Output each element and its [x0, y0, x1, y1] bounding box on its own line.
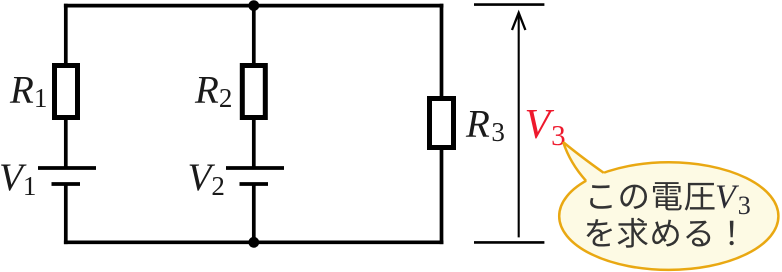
battery V2 short plate: [240, 182, 269, 186]
wire right branch: [440, 4, 444, 244]
svg-text:R2: R2: [194, 69, 232, 114]
svg-text:V3: V3: [525, 102, 566, 152]
wire left branch upper: [64, 4, 68, 168]
wire middle branch lower: [252, 184, 256, 244]
svg-text:R1: R1: [9, 69, 47, 114]
resistor R2: [242, 66, 265, 118]
wire top horizontal: [64, 4, 444, 8]
speech bubble tail left edge: [563, 142, 586, 181]
battery V1 long plate: [38, 166, 96, 170]
wire middle branch upper: [252, 6, 256, 168]
wire bottom horizontal: [64, 240, 444, 244]
svg-text:V2: V2: [188, 156, 225, 201]
junction node bottom: [248, 237, 259, 248]
battery V2 long plate: [226, 166, 284, 170]
bubble text line 1: この電圧: [590, 182, 714, 210]
svg-text:V1: V1: [0, 156, 36, 201]
bubble text line 2: を求める！: [586, 218, 733, 248]
speech bubble tail right edge: [563, 142, 604, 173]
speech bubble ellipse: [559, 162, 778, 270]
arrow V3 head: [512, 13, 525, 30]
speech bubble tail fill: [563, 142, 610, 188]
measurement bottom bar: [474, 241, 544, 244]
svg-text:R3: R3: [465, 102, 505, 147]
resistor R1: [55, 66, 78, 118]
measurement top bar: [474, 3, 544, 6]
resistor R3: [430, 99, 454, 148]
battery V1 short plate: [52, 182, 81, 186]
arrow V3 shaft: [518, 14, 520, 237]
junction node top: [248, 0, 259, 11]
wire left branch lower: [64, 184, 68, 244]
